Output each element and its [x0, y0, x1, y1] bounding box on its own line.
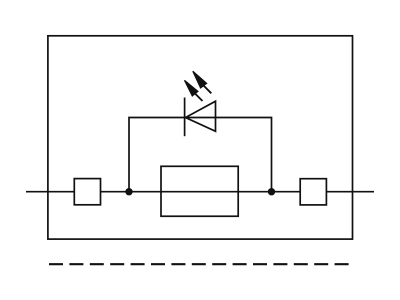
wire main through conductor [26, 191, 374, 193]
LED D1 triangle [186, 101, 216, 131]
LED light arrow 2 [193, 71, 212, 93]
LED light arrow 1 [185, 80, 203, 101]
node junction right [268, 188, 275, 195]
terminal block outline [48, 36, 353, 239]
clamp contact left [74, 179, 100, 205]
clamp contact right [300, 179, 326, 205]
DIN rail dashed line [49, 263, 350, 265]
wire LED branch [129, 118, 272, 192]
node junction left [125, 188, 132, 195]
fuse F1 [161, 166, 238, 216]
LED D1 cathode bar [184, 98, 186, 137]
